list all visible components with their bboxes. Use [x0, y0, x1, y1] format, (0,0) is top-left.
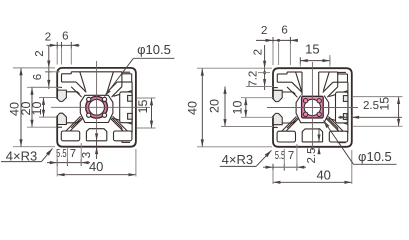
left profile right face top end pocket and strut lines [122, 71, 130, 73]
svg-text:6: 6 [281, 25, 287, 37]
dim line 10 left [43, 98, 45, 118]
extension lines 40 left [13, 67, 55, 69]
leader phi10.5 right drawing [354, 163, 397, 165]
left profile left slot lower lip block [58, 113, 67, 124]
extension lines 20 left right drawing [221, 126, 273, 128]
svg-text:10: 10 [30, 102, 44, 116]
svg-text:15: 15 [378, 97, 392, 111]
right profile bore nub scallops [303, 99, 307, 103]
extension lines top 2/6 [56, 48, 58, 65]
right profile horizontal centreline [267, 107, 358, 109]
left profile centre bore outer circle [86, 96, 108, 118]
dim arrows 2.5 bottom right drawing [318, 128, 320, 142]
left profile right face inner wall line [131, 82, 133, 133]
left profile bottom face pockets [61, 131, 79, 141]
left profile right face upper lip tab [128, 95, 133, 101]
extension lines left 2/6 [45, 71, 60, 73]
left profile left slot upper wide cavity line [66, 92, 79, 94]
dim line top 2/6 right drawing [256, 39, 298, 41]
left profile outer contour [57, 68, 136, 147]
left profile left face strut line lower [71, 118, 81, 128]
right profile bottom right strut lines [328, 117, 343, 132]
right profile top-left pocket and strut lines [277, 73, 287, 75]
left profile top-left pocket and strut lines [62, 73, 72, 75]
dim line bottom 5.5/7 right drawing [263, 166, 306, 168]
right profile top-right pocket and strut lines [338, 73, 348, 75]
right profile left face upper end line [274, 87, 278, 89]
extension lines 40 left right drawing [197, 67, 272, 69]
dim line 40 left right drawing [201, 68, 203, 147]
left profile core web outline [80, 95, 113, 122]
left profile right face lower lip tab [128, 113, 133, 119]
svg-text:7: 7 [288, 150, 294, 162]
left profile left slot upper lip block [58, 90, 67, 101]
dim line bottom 5.5/7 [47, 162, 90, 164]
svg-text:15: 15 [136, 100, 150, 114]
svg-text:7.2: 7.2 [248, 71, 260, 87]
svg-text:2: 2 [252, 49, 264, 55]
right profile bottom face inner wall line [302, 141, 322, 143]
dim line top 15 right drawing [300, 60, 330, 62]
leader 4xR3 right drawing [220, 165, 256, 167]
right profile outer contour [273, 68, 352, 147]
right profile channel walls [301, 72, 303, 96]
right profile vertical centreline [311, 62, 313, 150]
left profile left face strut line upper [71, 87, 81, 97]
dim line 2.5 right [352, 116, 402, 118]
dim line 15 right right drawing [398, 97, 400, 127]
extension lines bottom 5.5/7 right drawing [283, 149, 285, 169]
right profile right face lower lip tab [343, 114, 348, 120]
svg-text:2: 2 [261, 25, 267, 37]
left profile centre bore inner circle [89, 99, 105, 115]
right profile left face lower end line [274, 126, 278, 128]
left profile bottom face inner wall line [86, 140, 106, 142]
right profile left face strut line upper [287, 87, 297, 97]
left profile left slot lower wide cavity line [66, 121, 79, 123]
right profile right face bottom end pocket and strut lines [338, 142, 346, 144]
extension lines bottom 5.5/7 [66, 148, 68, 165]
svg-text:20: 20 [208, 99, 222, 113]
right profile top face inner wall lines flanking channel [287, 71, 302, 73]
svg-text:6: 6 [62, 31, 68, 43]
right profile left face strut line lower [287, 118, 297, 128]
left profile vertical centreline [96, 61, 98, 133]
leader phi10.5 left drawing [133, 57, 174, 59]
dim line 20 left [31, 87, 33, 127]
svg-text:4×R3: 4×R3 [6, 148, 37, 163]
right profile bottom face central cavity [302, 129, 322, 142]
left profile left face lower end line [58, 126, 62, 128]
svg-text:5.5: 5.5 [275, 150, 286, 162]
svg-text:2: 2 [34, 50, 46, 56]
left profile horizontal centreline [51, 106, 150, 108]
right profile right face upper lip tab [343, 96, 348, 102]
right profile bottom left strut lines [282, 117, 297, 132]
extension lines left 2/7.2 right drawing [258, 72, 270, 74]
dim line 15 right [151, 98, 153, 128]
right profile core web outline (top open) [296, 96, 329, 123]
left profile right face bottom end pocket and strut lines [122, 141, 130, 143]
extension lines 20 left [27, 86, 56, 88]
right profile right face top end pocket and strut lines [338, 71, 346, 73]
dim line 40 left [20, 68, 22, 147]
right profile centre bore circle [304, 99, 320, 115]
left profile bore corner nub circles [87, 97, 91, 101]
right profile right face inner wall line [347, 82, 349, 133]
svg-text:3: 3 [81, 152, 93, 158]
dim line 40 bottom [57, 174, 136, 176]
dim line left 2/6 [48, 46, 50, 89]
dim line top 2/6 [47, 44, 80, 46]
svg-text:4×R3: 4×R3 [222, 152, 253, 167]
right profile left slot upper wide cavity line [282, 92, 295, 94]
svg-text:10: 10 [230, 101, 244, 115]
dim line 20 left right drawing [224, 87, 226, 127]
right profile left slot lower lip block [273, 113, 282, 124]
right profile bottom face pockets [277, 131, 295, 142]
dim arrows 3 bottom [95, 133, 98, 141]
svg-text:40: 40 [89, 159, 103, 174]
right profile left slot lower wide cavity line [282, 121, 295, 123]
left profile left face upper end line [58, 86, 62, 88]
dim line left 2/7.2 right drawing [264, 45, 266, 90]
extension lines 15 right right drawing [353, 96, 403, 98]
svg-text:40: 40 [316, 168, 330, 183]
extension lines 10 left [39, 97, 56, 99]
svg-text:φ10.5: φ10.5 [358, 149, 392, 164]
svg-text:7: 7 [70, 148, 76, 160]
left profile right face blind slot cavity [120, 92, 132, 123]
dim line 10 left right drawing [245, 98, 247, 118]
right profile right face blind slot cavity [336, 92, 348, 123]
right profile centre square cavity pink fill [302, 96, 324, 118]
left profile bottom face central cavity [86, 129, 106, 141]
svg-text:2: 2 [45, 31, 51, 43]
extension lines 40 bottom right drawing [272, 170, 274, 184]
extension lines top 15 right drawing [299, 63, 301, 67]
leader 4xR3 left drawing [1, 161, 42, 163]
left profile centre bore pink ring [87, 98, 106, 117]
extension lines 40 bottom [56, 149, 58, 177]
left profile top face inner wall line [71, 71, 122, 73]
svg-text:40: 40 [185, 101, 199, 115]
dim line 40 bottom right drawing [273, 181, 352, 183]
svg-text:15: 15 [305, 41, 319, 56]
left profile top-right pocket and strut lines [122, 73, 132, 75]
extension lines 15 right [137, 97, 156, 99]
extension lines 10 left right drawing [241, 97, 273, 99]
left profile bottom right strut lines [113, 116, 128, 131]
extension lines top 2/6 right drawing [272, 43, 274, 66]
svg-text:2.5: 2.5 [306, 148, 318, 164]
svg-text:6: 6 [32, 74, 44, 80]
left profile bottom left strut lines [66, 116, 81, 131]
right profile left slot upper lip block [273, 90, 282, 101]
svg-text:φ10.5: φ10.5 [137, 42, 171, 57]
